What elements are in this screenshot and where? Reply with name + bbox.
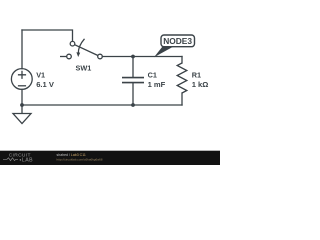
- wire V1 bottom to ground node: [21, 89, 23, 105]
- wire bottom rail: [22, 104, 182, 106]
- watermark bar: [0, 151, 220, 165]
- wire R1 right branch down: [181, 57, 183, 64]
- svg-text:6.1 V: 6.1 V: [36, 80, 55, 89]
- watermark logo zigzag: [3, 158, 18, 161]
- switch SW1: [60, 39, 102, 59]
- wire switch pole to R1 top: [102, 56, 182, 58]
- switch arrow head: [76, 52, 80, 57]
- svg-text:1 mF: 1 mF: [148, 80, 166, 89]
- svg-text:SW1: SW1: [76, 63, 92, 72]
- svg-text:▪LAB: ▪LAB: [20, 157, 34, 163]
- svg-text:shahed / Lab3 C11: shahed / Lab3 C11: [57, 153, 86, 157]
- wire C1 top lead: [132, 57, 134, 78]
- svg-text:C1: C1: [148, 70, 157, 79]
- junction node at V1/ground: [20, 103, 24, 107]
- resistor R1: [177, 63, 187, 93]
- svg-text:V1: V1: [36, 70, 45, 79]
- junction node C1 top: [131, 55, 135, 59]
- node NODE3 flag box: [161, 35, 195, 47]
- node NODE3 callout tail: [154, 47, 174, 58]
- ground: [13, 105, 31, 124]
- voltage source V1: [11, 69, 32, 90]
- svg-text:R1: R1: [192, 70, 201, 79]
- capacitor C1: [122, 78, 144, 83]
- wire R1 bottom lead: [181, 93, 183, 105]
- svg-text:1 kΩ: 1 kΩ: [192, 80, 209, 89]
- svg-text:NODE3: NODE3: [163, 36, 192, 46]
- wire top rail to switch: [22, 30, 73, 41]
- junction node C1 bottom: [131, 103, 135, 107]
- svg-text:http://circuitlab.com/c6ka6kg6: http://circuitlab.com/c6ka6kg6a68: [57, 158, 103, 162]
- wire top-left vertical (V1 top to corner): [21, 30, 23, 69]
- wire C1 bottom lead: [132, 83, 134, 105]
